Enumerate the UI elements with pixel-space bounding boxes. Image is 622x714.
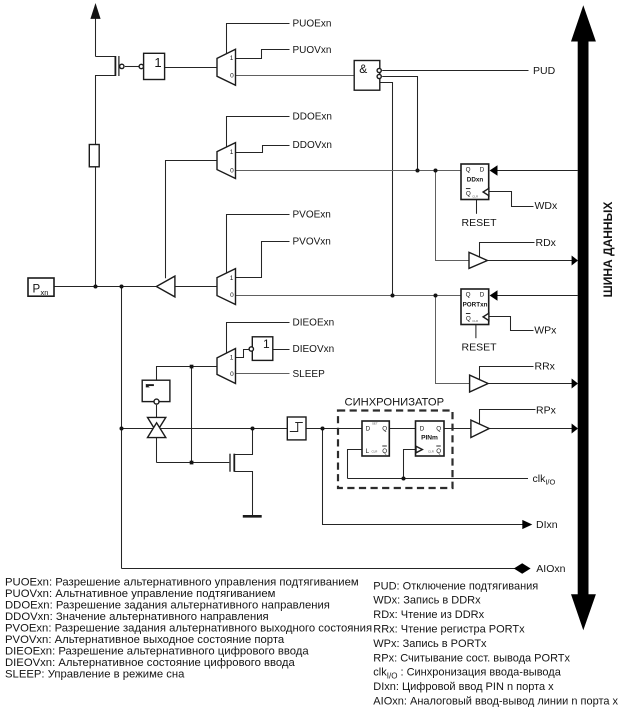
svg-text:D: D	[420, 425, 425, 432]
svg-text:DIxn: Цифровой ввод PIN n порт: DIxn: Цифровой ввод PIN n порта x	[373, 681, 554, 693]
svg-text:PVOVxn: PVOVxn	[293, 237, 331, 248]
svg-text:Q: Q	[466, 166, 471, 173]
svg-text:xn: xn	[41, 288, 49, 297]
svg-text:Q: Q	[436, 425, 441, 432]
svg-text:PUOExn: Разрешение альтернатив: PUOExn: Разрешение альтернативного управ…	[5, 576, 359, 588]
svg-text:Q: Q	[436, 448, 441, 455]
svg-text:0: 0	[230, 72, 234, 79]
svg-text:СИНХРОНИЗАТОР: СИНХРОНИЗАТОР	[345, 396, 445, 408]
svg-text:clkI/O : Синхронизация ввода-в: clkI/O : Синхронизация ввода-вывода	[373, 667, 561, 681]
svg-text:PUD: Отключение подтягивания: PUD: Отключение подтягивания	[373, 580, 538, 592]
svg-text:PUD: PUD	[533, 65, 556, 77]
svg-text:D: D	[480, 166, 485, 173]
svg-text:WDx: WDx	[535, 200, 558, 212]
svg-text:WDx: Запись в DDRx: WDx: Запись в DDRx	[373, 595, 481, 607]
svg-text:Q: Q	[382, 425, 387, 432]
svg-text:DDOVxn: Значение альтернативно: DDOVxn: Значение альтернативного направл…	[5, 611, 269, 623]
svg-text:DIEOExn: DIEOExn	[293, 318, 335, 329]
svg-text:Q: Q	[466, 190, 471, 197]
svg-text:RPx: RPx	[536, 405, 557, 417]
svg-text:PVOExn: Разрешение задания аль: PVOExn: Разрешение задания альтернативно…	[5, 623, 372, 635]
svg-text:PVOExn: PVOExn	[293, 209, 331, 220]
svg-text:CLR: CLR	[472, 319, 478, 323]
svg-text:CLR: CLR	[428, 450, 434, 454]
svg-text:DDOExn: DDOExn	[293, 112, 332, 123]
svg-text:WPx: WPx	[534, 324, 557, 336]
svg-text:0: 0	[230, 292, 234, 299]
svg-text:Q: Q	[382, 448, 387, 455]
svg-text:DDOExn: Разрешение задания аль: DDOExn: Разрешение задания альтернативно…	[5, 599, 330, 611]
svg-text:AIOxn: AIOxn	[536, 563, 565, 575]
svg-text:CLR: CLR	[472, 194, 478, 198]
svg-text:PORTxn: PORTxn	[463, 301, 488, 308]
svg-text:L: L	[366, 448, 370, 455]
svg-text:PVOVxn: Альтернативное выходно: PVOVxn: Альтернативное выходное состояни…	[5, 634, 285, 646]
svg-text:DDOVxn: DDOVxn	[293, 140, 332, 151]
svg-text:DIEOVxn: DIEOVxn	[293, 344, 335, 355]
svg-text:AIOxn: Аналоговый ввод-вывод л: AIOxn: Аналоговый ввод-вывод линии n пор…	[373, 696, 618, 708]
svg-text:PUOExn: PUOExn	[293, 19, 332, 30]
svg-text:WPx: Запись в PORTx: WPx: Запись в PORTx	[373, 638, 487, 650]
svg-text:clkI/O: clkI/O	[533, 473, 556, 487]
svg-text:DIxn: DIxn	[536, 519, 558, 531]
svg-text:RDx: RDx	[536, 237, 557, 249]
svg-text:Q: Q	[466, 291, 471, 298]
svg-text:1: 1	[263, 337, 270, 351]
svg-text:&: &	[359, 62, 367, 76]
svg-text:Q: Q	[466, 315, 471, 322]
svg-text:SLEEP: SLEEP	[293, 369, 326, 380]
svg-text:P: P	[33, 283, 41, 295]
svg-text:PUOVxn: Альтнативное управлени: PUOVxn: Альтнативное управление подтягив…	[5, 588, 275, 600]
svg-text:CLR: CLR	[372, 450, 378, 454]
svg-text:D: D	[366, 425, 371, 432]
svg-text:PUOVxn: PUOVxn	[293, 45, 332, 56]
svg-text:PINm: PINm	[421, 435, 438, 442]
svg-text:DIEOExn: Разрешение альтернати: DIEOExn: Разрешение альтернативного цифр…	[5, 646, 309, 658]
svg-text:1: 1	[230, 275, 234, 282]
svg-text:RESET: RESET	[462, 217, 498, 229]
svg-text:ШИНА ДАННЫХ: ШИНА ДАННЫХ	[601, 202, 615, 298]
svg-text:RESET: RESET	[462, 342, 498, 354]
svg-text:0: 0	[230, 167, 234, 174]
svg-text:1: 1	[230, 149, 234, 156]
svg-text:1: 1	[154, 55, 161, 70]
svg-text:0: 0	[230, 371, 234, 378]
svg-text:D: D	[480, 291, 485, 298]
svg-text:DDxn: DDxn	[467, 176, 484, 183]
svg-text:SET: SET	[372, 421, 378, 425]
svg-text:1: 1	[230, 55, 234, 62]
svg-text:RDx: Чтение из DDRx: RDx: Чтение из DDRx	[373, 609, 484, 621]
svg-text:SLEEP: Управление в режиме сна: SLEEP: Управление в режиме сна	[5, 669, 185, 681]
svg-text:1: 1	[230, 355, 234, 362]
svg-text:RPx: Считывание сост. вывода P: RPx: Считывание сост. вывода PORTx	[373, 652, 570, 664]
svg-text:RRx: Чтение регистра PORTx: RRx: Чтение регистра PORTx	[373, 624, 525, 636]
svg-text:RRx: RRx	[535, 361, 556, 373]
svg-text:DIEOVxn: Альтернативное состоя: DIEOVxn: Альтернативное состояние цифров…	[5, 657, 296, 669]
